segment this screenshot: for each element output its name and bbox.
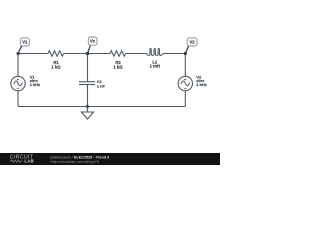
wire top: R2 to L1 bbox=[126, 53, 147, 55]
svg-text:V1: V1 bbox=[22, 39, 28, 44]
svg-text:1 nF: 1 nF bbox=[97, 83, 106, 88]
wire middle branch lower bbox=[87, 85, 89, 107]
node label V2 bbox=[187, 38, 197, 46]
node flag pointer V2 bbox=[185, 46, 188, 54]
inductor L1 bbox=[146, 48, 163, 55]
svg-text:1 kΩ: 1 kΩ bbox=[113, 65, 123, 70]
wire middle branch upper bbox=[87, 54, 89, 82]
svg-text:1 kHz: 1 kHz bbox=[30, 82, 40, 87]
capacitor C1 bbox=[79, 82, 95, 85]
wire bottom rail bbox=[18, 106, 185, 108]
wire right branch upper bbox=[184, 54, 186, 77]
svg-text:LAB: LAB bbox=[24, 159, 34, 164]
svg-text:1 mH: 1 mH bbox=[150, 64, 160, 69]
resistor R1 bbox=[48, 51, 64, 56]
wire top: R1 to node Vc bbox=[64, 53, 88, 55]
footer bar bbox=[0, 153, 220, 165]
svg-text:1 kΩ: 1 kΩ bbox=[51, 65, 61, 70]
resistor R2 bbox=[110, 51, 126, 56]
svg-text:V2: V2 bbox=[190, 39, 196, 44]
node label V1 bbox=[20, 38, 29, 46]
node flag pointer V1 bbox=[18, 46, 22, 54]
ground bbox=[81, 107, 93, 120]
wire top: node V1 to R1 bbox=[18, 53, 48, 55]
svg-text:Vc: Vc bbox=[90, 39, 96, 44]
node flag pointer Vc bbox=[88, 45, 91, 53]
svg-text:1 kHz: 1 kHz bbox=[196, 82, 206, 87]
wire top: L1 to node V2 bbox=[163, 53, 185, 55]
junction node V2 bbox=[184, 52, 187, 55]
voltage source V2 bbox=[178, 76, 192, 90]
footer logo resistor glyph bbox=[10, 160, 23, 163]
wire right branch lower bbox=[184, 91, 186, 107]
junction node V1 bbox=[17, 52, 20, 55]
voltage source V1 bbox=[11, 76, 25, 90]
junction node bottom bbox=[86, 105, 89, 108]
svg-text:http://circuitlab.com/c64pv7h: http://circuitlab.com/c64pv7h bbox=[51, 160, 99, 164]
junction node Vc bbox=[86, 52, 89, 55]
wire left branch upper bbox=[17, 54, 19, 77]
wire top: node Vc to R2 bbox=[88, 53, 111, 55]
wire left branch lower bbox=[17, 91, 19, 107]
node label Vc bbox=[88, 37, 97, 45]
